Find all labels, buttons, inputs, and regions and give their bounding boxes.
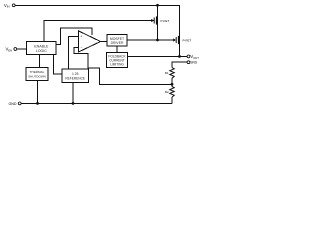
svg-text:GND: GND <box>9 102 17 106</box>
wire MOSFET driver to main FET gate <box>127 39 173 41</box>
wire feedback divider to op-amp minus input <box>74 48 172 85</box>
svg-text:SNS: SNS <box>190 61 197 65</box>
wire MOSFET driver to foldback current limiting <box>116 46 118 53</box>
svg-text:1.25: 1.25 <box>72 72 79 76</box>
svg-text:+: + <box>80 35 82 39</box>
wire op-amp output to MOSFET driver <box>101 41 108 43</box>
wire VEN terminal to enable logic <box>17 48 27 50</box>
svg-text:R1: R1 <box>165 71 169 75</box>
terminal GND <box>18 102 21 105</box>
wire sense FET source drop and drain <box>157 5 159 40</box>
junction dot thermal-gnd <box>36 102 39 105</box>
block MOSFET driver <box>107 35 127 47</box>
wire enable logic to reference left <box>54 55 62 75</box>
block thermal shutdown <box>26 67 48 80</box>
terminal VOUT <box>187 55 190 58</box>
wire enable logic to sense FET gate <box>44 21 152 42</box>
svg-text:ENABLE: ENABLE <box>34 45 49 49</box>
svg-text:SHUTDOWN: SHUTDOWN <box>28 74 46 78</box>
transistor Q2 main P-FET <box>173 36 178 44</box>
svg-text:−: − <box>80 46 82 50</box>
junction dot VIN / sense FET <box>156 4 159 7</box>
wire SNS terminal to divider <box>172 62 187 67</box>
resistor R2 <box>170 87 174 98</box>
svg-text:LOGIC: LOGIC <box>36 49 48 53</box>
terminal VIN <box>12 4 15 7</box>
junction dot VOUT <box>178 55 181 58</box>
wire R1 bottom to feedback node and R2 top <box>171 78 173 86</box>
svg-text:REFERENCE: REFERENCE <box>65 77 85 81</box>
wire thermal shutdown to ground rail <box>37 80 39 103</box>
junction dot reference-gnd <box>72 102 75 105</box>
junction dot gate drive net <box>156 39 159 42</box>
block enable logic <box>27 42 56 55</box>
wire foldback to VOUT line <box>128 55 188 57</box>
svg-text:P-FET: P-FET <box>161 19 170 23</box>
wire GND rail <box>21 102 172 104</box>
wire VIN top rail <box>15 5 179 56</box>
wire R2 bottom to ground rail <box>171 97 173 103</box>
block foldback current limiting <box>107 53 128 68</box>
svg-text:P-FET: P-FET <box>183 38 192 42</box>
svg-text:DRIVER: DRIVER <box>111 41 124 45</box>
resistor R1 <box>170 68 174 79</box>
transistor Q1 sense P-FET <box>150 16 157 24</box>
wire enable logic to op-amp top <box>56 28 92 45</box>
wire reference bottom to ground rail <box>72 83 74 104</box>
svg-text:R2: R2 <box>165 90 169 94</box>
block 1.25 reference <box>62 69 88 83</box>
junction dot feedback divider <box>171 83 174 86</box>
terminal SNS <box>187 61 190 64</box>
wire enable logic to thermal shutdown <box>39 55 41 68</box>
terminal VEN <box>14 48 17 51</box>
wire reference top to op-amp plus input <box>68 36 79 69</box>
svg-text:LIMITING: LIMITING <box>110 62 124 66</box>
op-amp U1 error amplifier <box>79 31 101 52</box>
